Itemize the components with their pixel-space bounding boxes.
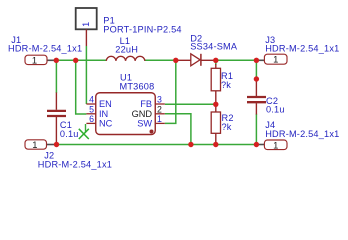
junction node SW-top [173,58,178,63]
inductor L1 [106,36,145,61]
svg-text:6: 6 [89,114,94,124]
svg-text:HDR-M-2.54_1x1: HDR-M-2.54_1x1 [8,44,82,54]
svg-text:0.1u: 0.1u [266,105,285,115]
connector J4 [258,120,339,150]
svg-text:0.1u: 0.1u [60,129,79,139]
wire top rail J1 to L1 [47,59,106,61]
pin 6 NC [86,122,95,124]
wire C2 bottom to rail [255,114,257,145]
connector J3 [258,35,339,64]
svg-text:PORT-1PIN-P2.54: PORT-1PIN-P2.54 [103,24,181,34]
junction node B (IN) [73,58,78,63]
svg-text:SW: SW [137,119,152,129]
resistor R2 [211,104,233,144]
wire GND pin 2 to bottom rail [165,114,191,145]
junction node FB divider [213,102,218,107]
resistor R1 [211,64,233,104]
wire R1 top [215,60,217,65]
svg-text:MT3608: MT3608 [120,81,155,91]
svg-text:?k: ?k [222,122,232,132]
capacitor C1 [47,93,79,145]
svg-text:5: 5 [89,104,94,114]
svg-text:SS34-SMA: SS34-SMA [190,41,238,51]
port P1 [76,8,182,46]
IC U1 MT3608 [86,72,164,134]
pin 5 IN [86,113,95,115]
svg-text:4: 4 [89,95,94,105]
svg-text:1: 1 [81,22,91,27]
svg-text:HDR-M-2.54_1x1: HDR-M-2.54_1x1 [38,160,112,170]
svg-text:22uH: 22uH [115,44,138,54]
junction node VOUT at R1 [213,58,218,63]
svg-text:1: 1 [273,139,278,150]
wire L1 to node SW-top [145,59,176,61]
svg-text:IN: IN [99,109,108,119]
no-connect X on pin 6 [79,124,89,139]
pin 2 GND [155,113,165,115]
svg-text:2: 2 [157,104,162,114]
wire SW vertical node to pin 1 [165,60,176,123]
svg-text:FB: FB [140,99,152,109]
junction node C2 top [254,76,259,81]
wire VOUT drop to C2 [255,60,257,79]
pin 3 FB [155,103,165,105]
wire bottom ground rail [57,144,257,146]
wire VIN drop to pin 5 IN [76,60,87,114]
svg-text:1: 1 [32,139,37,150]
connector J1 [8,35,82,66]
capacitor C2 [247,79,285,115]
wire P1 down to pin 4 EN [85,46,87,104]
svg-text:EN: EN [99,99,112,109]
pin1 marker dot [150,130,154,134]
wire VIN drop to C1 [55,60,57,93]
connector J2 [25,139,112,170]
wire FB pin 3 to divider node [165,103,216,105]
svg-text:GND: GND [132,109,153,119]
junction node GND C2/J4 [254,142,259,147]
svg-text:NC: NC [99,119,113,129]
svg-text:HDR-M-2.54_1x1: HDR-M-2.54_1x1 [265,43,339,53]
junction node GND R2 [213,142,218,147]
junction node A (J1/C1) [54,58,59,63]
junction node GND U1 [188,142,193,147]
svg-text:1: 1 [273,54,278,65]
wire diode cathode to VOUT node [216,59,256,61]
diode D2 [176,33,238,65]
svg-text:1: 1 [32,54,37,65]
svg-text:HDR-M-2.54_1x1: HDR-M-2.54_1x1 [265,129,339,139]
pin 4 EN [86,103,95,105]
svg-text:?k: ?k [221,80,231,90]
svg-text:3: 3 [157,95,162,105]
pin 1 SW [155,122,165,124]
svg-text:1: 1 [157,114,162,124]
junction node GND J2 [54,142,59,147]
junction node VOUT at J3 [254,58,259,63]
